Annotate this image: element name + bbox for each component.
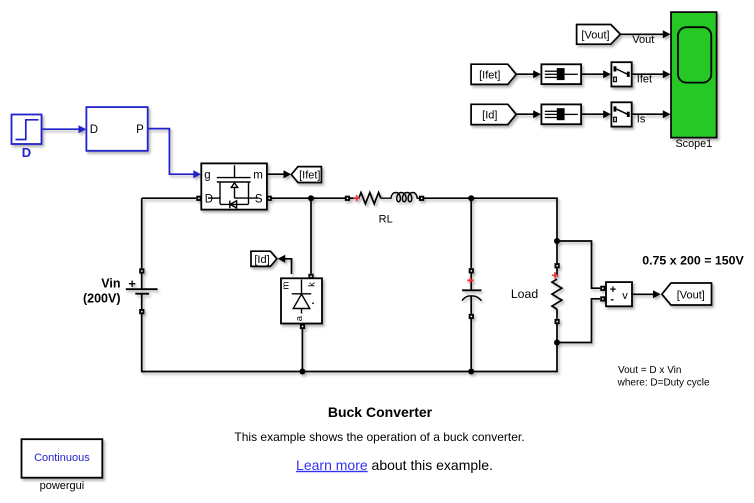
svg-text:S: S [255, 193, 263, 205]
svg-text:Ifet: Ifet [637, 73, 652, 85]
svg-text:[Vout]: [Vout] [581, 29, 609, 41]
svg-text:k: k [306, 282, 317, 287]
svg-text:Load: Load [511, 287, 539, 301]
svg-text:m: m [253, 170, 263, 182]
svg-text:Is: Is [637, 113, 646, 125]
svg-text:a: a [294, 315, 305, 321]
svg-text:[Vout]: [Vout] [677, 289, 705, 301]
svg-text:[Ifet]: [Ifet] [479, 69, 500, 81]
svg-text:where: D=Duty cycle: where: D=Duty cycle [617, 377, 710, 388]
svg-text:Scope1: Scope1 [675, 138, 712, 150]
svg-text:[Id]: [Id] [254, 254, 269, 266]
svg-text:v: v [622, 290, 628, 302]
svg-text:Continuous: Continuous [34, 452, 90, 464]
svg-text:Buck Converter: Buck Converter [328, 404, 433, 420]
svg-text:This example shows the operati: This example shows the operation of a bu… [234, 430, 524, 444]
svg-text:D: D [205, 194, 213, 206]
svg-text:[Ifet]: [Ifet] [299, 170, 320, 182]
svg-text:Vout = D x Vin: Vout = D x Vin [618, 365, 681, 376]
svg-text:[Id]: [Id] [482, 109, 497, 121]
svg-text:D: D [22, 145, 31, 160]
svg-text:g: g [204, 170, 210, 182]
svg-text:RL: RL [379, 214, 393, 226]
svg-text:Vin: Vin [101, 277, 120, 291]
svg-text:m: m [281, 281, 292, 289]
svg-text:0.75 x 200 = 150V: 0.75 x 200 = 150V [642, 253, 744, 267]
svg-text:powergui: powergui [40, 480, 85, 492]
svg-text:D: D [90, 124, 98, 136]
svg-text:(200V): (200V) [83, 292, 121, 306]
svg-text:-: - [610, 294, 614, 306]
svg-text:Learn more about this example.: Learn more about this example. [296, 457, 493, 473]
svg-text:Vout: Vout [632, 34, 654, 46]
svg-text:P: P [136, 124, 144, 136]
